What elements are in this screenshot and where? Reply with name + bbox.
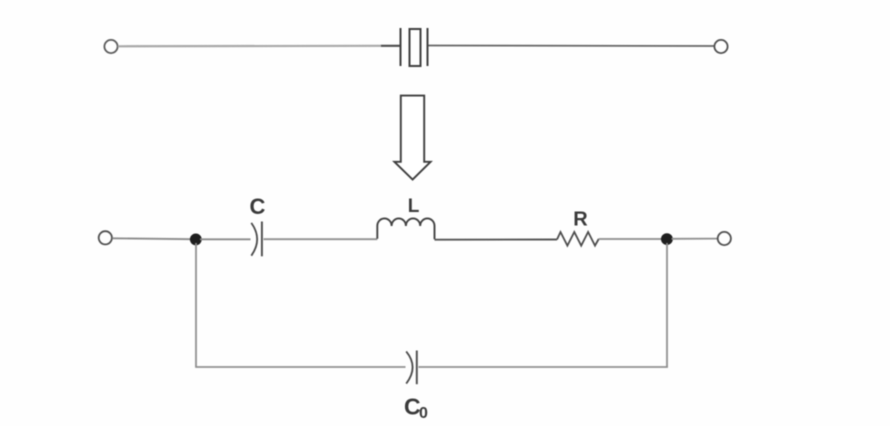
wire (right vertical drop from node B) <box>666 243 668 367</box>
wire (top-left terminal to crystal, light gray) <box>118 45 381 48</box>
capacitor C0 <box>406 351 417 385</box>
wire (bottom-left terminal to node A) <box>112 237 191 240</box>
node A (left junction dot) <box>190 234 202 246</box>
capacitor C <box>251 222 262 257</box>
wire (inductor L to resistor R) <box>435 239 558 241</box>
terminal T1 (top-left open circle) <box>104 40 117 53</box>
wire (short dark lead into crystal left plate) <box>381 45 400 47</box>
wire (bottom rail right, capacitor C0 to node B) <box>419 366 668 368</box>
wire (node B to bottom-right terminal) <box>672 238 718 240</box>
crystal Y1 <box>401 28 428 66</box>
wire (capacitor C to inductor L) <box>264 238 378 240</box>
label R <box>573 209 588 231</box>
wire (resistor R to node B) <box>599 238 662 240</box>
wire (left vertical drop from node A) <box>195 243 197 367</box>
label L <box>408 196 420 217</box>
svg-text:L: L <box>408 196 420 217</box>
terminal T4 (bottom-right open circle) <box>718 232 731 245</box>
label C0 <box>404 393 428 422</box>
resistor R <box>557 232 599 246</box>
svg-text:C: C <box>250 194 266 219</box>
terminal T2 (top-right open circle) <box>714 40 727 53</box>
label C <box>250 194 266 219</box>
arrow (hollow down arrow, equivalence) <box>394 96 430 180</box>
svg-text:R: R <box>573 209 588 231</box>
node B (right junction dot) <box>661 233 673 245</box>
wire (node A to capacitor C) <box>200 238 251 240</box>
inductor L <box>377 218 434 239</box>
terminal T3 (bottom-left open circle) <box>99 231 112 244</box>
wire (crystal right plate to top-right terminal) <box>429 45 715 48</box>
wire (bottom rail left, node A to capacitor C0) <box>195 366 405 368</box>
svg-text:0: 0 <box>419 405 428 422</box>
